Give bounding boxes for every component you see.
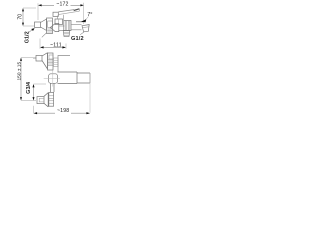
- extension left of ~198: [33, 106, 35, 114]
- extension line top of 70: [23, 7, 36, 9]
- dimension 70 top arrow: [22, 8, 24, 11]
- wall line: [89, 73, 91, 113]
- 7 degree leader arrow: [81, 19, 86, 22]
- top view body block: [55, 19, 63, 25]
- front view cartridge stripes: [48, 60, 53, 66]
- shower outlet knob inner: [39, 98, 44, 102]
- top view cartridge stripes: [47, 29, 52, 32]
- top view lever knob: [35, 22, 41, 28]
- top view s-union pipe dark top: [76, 21, 83, 23]
- dimension 150 bottom arrow: [20, 97, 22, 100]
- svg-text:70: 70: [17, 14, 23, 20]
- front view tube end block: [77, 73, 90, 83]
- dimension ~111 left arrow: [40, 46, 44, 48]
- dimension 150 line: [20, 59, 22, 100]
- dimension 70 line: [22, 9, 24, 25]
- top view spout root rect: [53, 12, 58, 16]
- top view knurled nut: [64, 21, 71, 31]
- second vertical dim line: [33, 85, 35, 100]
- extension mid at tube bottom: [34, 83, 47, 85]
- top view wall pot: [82, 25, 89, 32]
- top view knurl stripes: [65, 21, 70, 31]
- G1/2 left leader arrow: [31, 28, 34, 31]
- front view adapter: [54, 58, 59, 67]
- dimension 150 top arrow: [20, 58, 22, 61]
- top view lower nipple stripes: [64, 32, 70, 35]
- extension line right of ~172: [83, 3, 85, 24]
- extension bottom 150: [21, 100, 36, 102]
- svg-text:G1/2: G1/2: [71, 36, 84, 42]
- shower outlet nipple: [49, 92, 54, 106]
- 7 degree leader line: [86, 17, 89, 20]
- diagonal leader line: [42, 33, 47, 38]
- svg-text:G1/2: G1/2: [25, 31, 31, 43]
- dimension 70 bottom arrow: [22, 23, 24, 26]
- G1/2 left leader: [29, 29, 34, 32]
- top view body block divider: [58, 19, 60, 24]
- top view union neck: [59, 26, 65, 30]
- front view diverter pill: [49, 74, 58, 84]
- shower outlet cone: [44, 93, 48, 107]
- dimension ~198 right arrow: [86, 112, 90, 114]
- svg-text:G3/4: G3/4: [26, 81, 32, 94]
- nipple stripes: [49, 96, 54, 103]
- top view spout tip end: [78, 9, 80, 11]
- front view lever cone: [42, 53, 48, 69]
- top view spout bar top edge: [58, 10, 74, 12]
- extension top 150: [21, 57, 36, 59]
- shower outlet knob: [37, 97, 44, 104]
- second dim top arrow: [33, 84, 35, 87]
- top view s-union pipe: [71, 24, 82, 30]
- front view cartridge: [48, 53, 54, 70]
- dimension ~111 line: [41, 46, 65, 48]
- svg-text:150 ± 15: 150 ± 15: [17, 62, 23, 81]
- front view cartridge inner: [49, 55, 53, 59]
- front view left stub: [33, 58, 36, 60]
- extension line left of ~172: [37, 3, 39, 20]
- dimension ~172 left arrow: [38, 4, 42, 6]
- dimension ~172 right arrow: [80, 4, 84, 6]
- front view adapter stripes: [54, 61, 58, 65]
- extension lines ~111: [40, 39, 66, 49]
- diverter crosshair: [44, 71, 60, 87]
- top view cartridge inner: [48, 21, 53, 28]
- svg-text:~198: ~198: [57, 108, 69, 114]
- dimension ~198 left arrow: [34, 112, 38, 114]
- shower outlet connector: [50, 84, 54, 93]
- front view body edge: [58, 56, 70, 73]
- extension line bottom of 70: [23, 25, 35, 27]
- top view spout dark tip: [74, 9, 80, 11]
- second dim bottom arrow: [33, 97, 35, 100]
- dimension ~111 right arrow: [62, 46, 66, 48]
- front view lever knob: [36, 56, 42, 62]
- G1/2 top view leader: [80, 32, 84, 35]
- dimension ~172 line: [39, 4, 81, 6]
- top view escutcheon oval: [50, 23, 59, 31]
- top view cartridge block: [47, 18, 53, 34]
- top view spout bar bottom edge: [58, 11, 79, 14]
- svg-text:~172: ~172: [56, 2, 68, 8]
- top view body column verticals: [58, 15, 64, 21]
- top view lever cone: [41, 19, 47, 31]
- dimension ~198 line: [35, 112, 90, 114]
- top view lower nipple: [63, 31, 70, 37]
- front view tube: [58, 72, 78, 84]
- top view wall pot inner line: [82, 26, 89, 29]
